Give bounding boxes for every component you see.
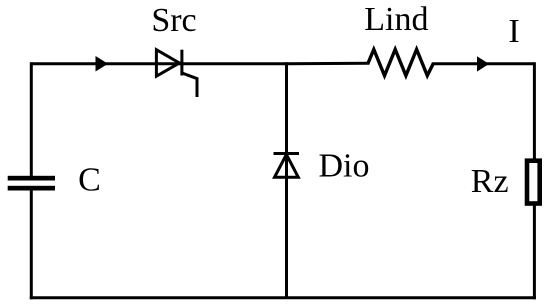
thyristor Src [156,50,197,97]
svg-text:Rz: Rz [471,163,509,200]
current arrow on top-left wire [96,56,109,72]
wire: left rail, capacitor to bottom corner [30,191,33,300]
svg-text:Dio: Dio [319,148,370,185]
svg-text:Src: Src [151,2,196,39]
wire: top rail, inductor to right corner [432,62,534,65]
diode Dio [274,154,300,178]
capacitor C [8,176,55,191]
wire: freewheel diode branch [285,62,288,298]
wire: right rail [533,62,536,299]
wire: top rail, mid junction to inductor [287,62,370,65]
svg-text:Lind: Lind [364,1,428,38]
svg-text:C: C [78,162,101,199]
current arrow I [477,56,489,71]
inductor Lind [368,49,433,75]
svg-text:I: I [508,13,519,50]
resistor Rz [527,161,540,204]
wire: bottom rail [30,296,536,299]
wire: top rail, left corner to mid junction [31,62,286,65]
wire: left rail, top corner to capacitor [30,62,33,176]
